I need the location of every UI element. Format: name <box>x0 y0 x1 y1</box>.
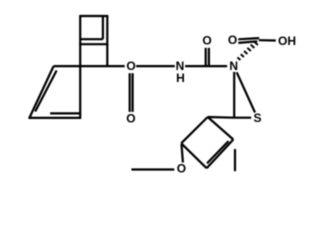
benzene ring inner double-bond line (right edge) <box>102 16 104 39</box>
bond junction C to S <box>234 117 251 119</box>
carboxyl C=O double bond lower line <box>238 41 257 43</box>
svg-text:O: O <box>126 59 135 73</box>
benzene ring cross bond upper <box>80 38 103 40</box>
sulfonyl-style O=O double bond, right line <box>132 73 134 112</box>
methyl stub bond <box>234 149 236 171</box>
svg-text:H: H <box>176 71 185 85</box>
svg-text:N: N <box>229 59 238 73</box>
wire: main chain C-O bond through ring carbons <box>54 65 125 67</box>
bond N to S (diagonal) <box>237 72 255 112</box>
benzene ring left slanted edge (outer) <box>29 66 53 118</box>
cyclobutene edge top-left <box>181 117 208 143</box>
wire: O to NH bond <box>136 65 175 67</box>
svg-text:S: S <box>253 111 261 125</box>
bond junction C to cyclobutene top vertex <box>208 116 235 119</box>
bond ring left vertex down to O of methoxy <box>182 144 183 163</box>
sulfonyl-style O=O double bond, left line <box>129 73 131 112</box>
bond carboxyl C to OH <box>259 39 276 41</box>
methoxy methyl bond <box>131 168 174 170</box>
cyclobutene double-bond inner line <box>207 141 229 163</box>
amide C=O double bond right line <box>208 48 210 65</box>
cyclobutene edge bottom-right (outer of double bond) <box>207 140 234 169</box>
svg-text:O: O <box>177 162 186 176</box>
amide C=O double bond left line <box>205 48 207 65</box>
svg-text:O: O <box>126 111 135 125</box>
svg-text:O: O <box>228 33 237 47</box>
svg-text:O: O <box>202 33 211 47</box>
benzene ring bottom edge <box>28 117 81 119</box>
carboxyl C=O double bond upper line <box>238 38 259 39</box>
cyclobutene edge right-top <box>208 117 234 140</box>
wire: NH to carbonyl C and on to N <box>185 65 227 67</box>
benzene ring top edge <box>79 15 108 17</box>
benzene ring bottom inner double-bond line <box>50 112 79 114</box>
svg-text:OH: OH <box>278 34 296 48</box>
benzene ring left slanted edge inner double-bond line <box>35 71 56 112</box>
hashed wedge bond from N up to carboxyl carbon <box>237 41 258 60</box>
benzene ring (drawn as Dewar-type bicyclic), left vertical edge <box>79 16 81 118</box>
benzene ring cross bond lower (double) <box>79 43 107 45</box>
benzene ring right vertical edge <box>106 16 108 66</box>
bond N down to ring junction carbon <box>233 72 235 118</box>
cyclobutene edge left-bottom <box>181 143 206 168</box>
